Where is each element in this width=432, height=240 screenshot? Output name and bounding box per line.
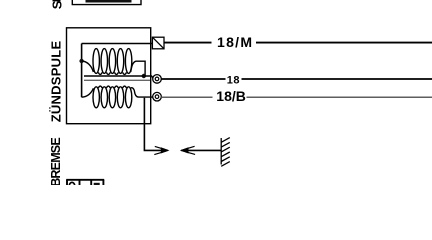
brake switch terminal mark 2 <box>94 183 100 185</box>
chassis ground symbol <box>221 138 230 167</box>
node: exit junction dot <box>142 74 146 78</box>
wire 18/M to right edge <box>164 42 432 44</box>
core line 2 <box>84 79 150 81</box>
wire 18/B to right edge <box>161 96 432 98</box>
svg-text:BREMSE: BREMSE <box>49 138 63 185</box>
svg-text:18: 18 <box>227 75 240 87</box>
wire: secondary entry/scallops/exit <box>82 86 153 97</box>
wire 18 to right edge <box>161 78 432 80</box>
wire: ground tap from secondary exit <box>144 98 167 151</box>
node: primary/secondary junction dot <box>79 59 83 63</box>
wire: primary top line to connector <box>82 43 153 45</box>
label 18/B <box>213 88 247 104</box>
primary winding L1 <box>93 49 132 74</box>
core line / secondary top line to terminal 1 <box>84 76 154 78</box>
svg-text:S: S <box>50 0 65 9</box>
connector arrow left <box>181 148 188 153</box>
svg-text:18/M: 18/M <box>217 34 253 50</box>
wire: ground arrow line <box>181 149 221 151</box>
label 18/M <box>212 34 257 50</box>
svg-text:18/B: 18/B <box>216 88 246 104</box>
wire: primary entry/scallops/exit <box>82 61 146 76</box>
terminal circle 2 <box>153 92 162 101</box>
component box cut off at top <box>72 0 141 5</box>
component box internal bar (cut off) <box>86 0 132 3</box>
label 18 <box>226 75 242 87</box>
terminal circle 1 <box>153 75 162 84</box>
connector arrow right <box>161 148 168 153</box>
secondary winding L2 <box>93 87 132 108</box>
brake switch box (cut off at bottom) <box>66 180 104 185</box>
connector square with diagonal <box>152 37 164 49</box>
brake switch terminal mark 1 <box>69 182 74 189</box>
svg-text:ZÜNDSPULE: ZÜNDSPULE <box>48 41 63 123</box>
wire: left vertical bus <box>81 44 83 98</box>
ignition coil box <box>67 28 151 124</box>
cut-off letter fragment above S <box>53 0 61 1</box>
